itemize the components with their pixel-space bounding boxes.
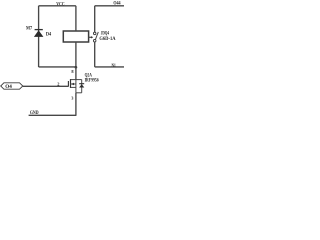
wire gate net [23,85,69,87]
wire O44 rail [95,5,124,7]
relay contact arm [95,32,98,40]
wire relay coil bottom pin [75,42,77,67]
junction dot [75,66,78,69]
svg-text:8: 8 [71,69,73,74]
svg-text:IRF9956: IRF9956 [85,78,99,84]
svg-text:O4: O4 [5,84,12,90]
wire drain pin [75,67,77,80]
svg-text:GND: GND [30,110,39,116]
mosfet Q2A [68,79,84,93]
wire anode net horizontal [39,66,76,68]
wire contact top [94,6,96,32]
relay actuator arrow [89,36,94,38]
wire VCC rail [39,5,76,7]
svg-text:M7: M7 [26,26,32,32]
svg-text:2: 2 [57,82,59,87]
svg-text:G6D-1A: G6D-1A [99,36,115,42]
wire source pin [75,93,77,116]
svg-text:O44: O44 [113,1,121,7]
wire N1 [95,66,124,68]
svg-text:N1: N1 [112,63,117,69]
relay contact fixed circle [93,32,96,35]
wire GND net [29,114,77,116]
off-page connector O4 [1,83,23,90]
relay contact moving circle [93,39,96,42]
diode D4 [34,30,44,37]
wire relay coil top pin [75,6,77,31]
svg-text:3: 3 [71,96,73,101]
relay coil box K (JDQ4) [63,31,88,42]
svg-text:D4: D4 [46,32,52,38]
wire VCC left vertical [38,6,40,67]
wire contact bottom [94,42,96,67]
